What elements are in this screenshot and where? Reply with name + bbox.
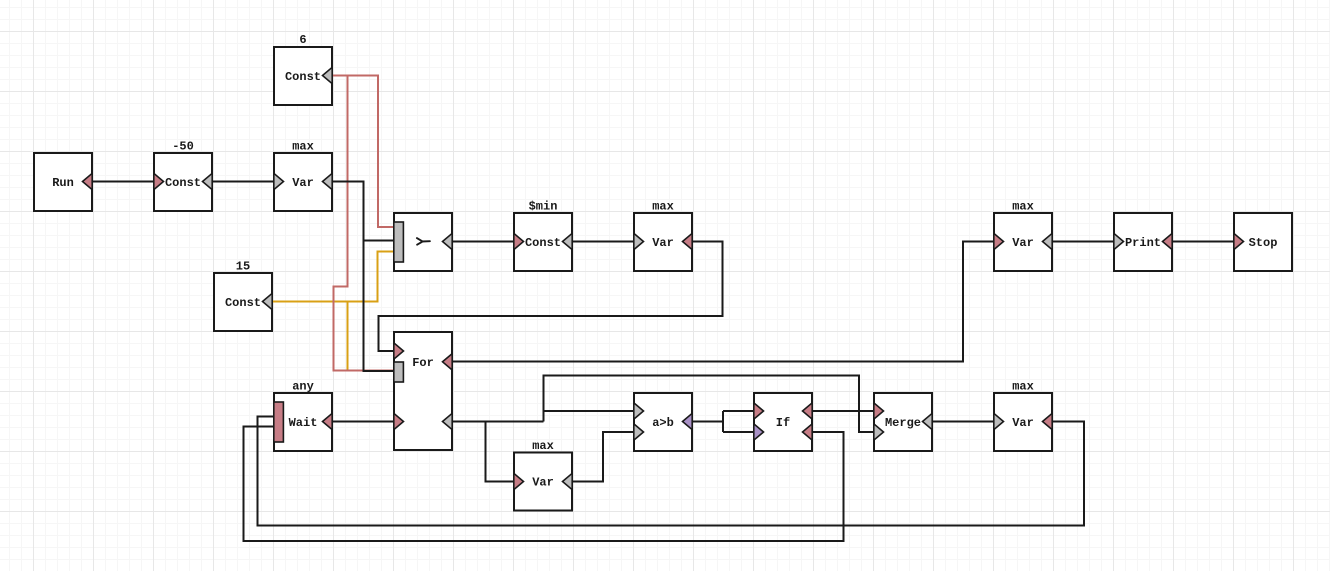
node Wait W1 (any) [274,393,332,451]
wire orange: Const 15 output to &gt; port and For port [273,252,394,371]
output connector V2 right (red) [683,233,693,249]
svg-text:Run: Run [52,176,74,190]
wire: If lower output feedback to Wait [244,427,844,542]
output connector V1 right (gray) [323,173,333,189]
node &gt; comparator G1 [394,213,452,271]
svg-text:Wait: Wait [289,416,318,430]
output connector V5 right (gray) [1043,233,1053,249]
output connector Run right (red) [83,173,93,189]
svg-text:Print: Print [1125,236,1161,250]
input port bar W1 left (red) [274,402,284,442]
output connector C4 right (gray) [263,293,273,309]
input connector F1 bottom-left (red) [394,413,404,429]
output connector V3 right (gray) [563,473,573,489]
wire: Merge to Var max [933,421,993,423]
node Var V5 (max) [994,213,1052,271]
input connector V5 left (red) [994,233,1004,249]
node Const C3 ($min) [514,213,572,271]
wire: Const $min to Var max [573,241,633,243]
input connector V2 left (gray) [634,233,644,249]
input connector I1 lower-left (purple) [754,424,764,440]
svg-text:If: If [776,416,790,430]
svg-text:-50: -50 [172,140,194,154]
input connector I1 upper-left (red) [754,403,764,419]
output connector V4 right (red) [1043,413,1053,429]
svg-text:Var: Var [1012,416,1034,430]
wire: Var max to Print [1053,241,1113,243]
svg-text:Const: Const [285,70,321,84]
wire: &gt; output to Const $min [453,241,513,243]
svg-text:Const: Const [225,296,261,310]
svg-text:Var: Var [532,476,554,490]
output connector C2 right (gray) [203,173,213,189]
input connector C3 left (red) [514,233,524,249]
node a&gt;b A1 [634,393,692,451]
node Const C1 (value 6) [274,47,332,105]
output connector I1 upper-right (red) [803,403,813,419]
output connector C3 right (gray) [563,233,573,249]
wire: Var max output to For top-left input [379,242,723,352]
output connector I1 lower-right (red) [803,424,813,440]
node Const C2 (value -50) [154,153,212,211]
wire: For top output to Var max (top right) [453,242,993,362]
svg-text:max: max [532,439,554,453]
wire: a&gt;b output split to If inputs [693,411,753,432]
svg-text:6: 6 [299,33,306,47]
svg-text:max: max [1012,200,1034,214]
output connector P1 right (red) [1163,233,1173,249]
svg-text:Merge: Merge [885,416,921,430]
input connector V3 left (red) [514,473,524,489]
output connector F1 bottom-right (gray) [443,413,453,429]
wire: Var max output to &gt; port and For port [333,182,394,372]
output connector C1 right (gray) [323,67,333,83]
svg-text:Const: Const [525,236,561,250]
input connector V1 left (gray) [274,173,284,189]
svg-text:max: max [652,200,674,214]
text "&gt;" rotated glyph in G1 [417,238,430,245]
svg-text:For: For [412,356,434,370]
wire red: Const 6 output to &gt; port and For port [333,76,394,371]
input port bar G1 left (gray) [394,222,404,262]
svg-text:max: max [1012,380,1034,394]
input connector A1 upper-left (gray) [634,403,644,419]
node Var V3 (max) [514,453,572,511]
svg-text:Stop: Stop [1249,236,1278,250]
wire: Print to Stop [1173,241,1233,243]
wire: Wait to For lower input [333,421,394,423]
node Stop S1 [1234,213,1292,271]
node For F1 [394,332,452,450]
svg-text:Const: Const [165,176,201,190]
input connector S1 left (red) [1234,233,1244,249]
wire: Const -50 to Var max [213,181,273,183]
input connector A1 lower-left (gray) [634,424,644,440]
output connector F1 top-right (red) [443,354,453,370]
svg-text:Var: Var [292,176,314,190]
output connector A1 right (purple) [683,413,693,429]
svg-text:max: max [292,140,314,154]
output connector W1 right (red) [323,413,333,429]
wire: Run to Const -50 [93,181,153,183]
input connector M1 lower-left (gray) [874,424,884,440]
svg-text:Var: Var [652,236,674,250]
wire: If upper output to Merge [813,410,873,412]
output connector M1 right (gray) [923,413,933,429]
node Var V4 (max) [994,393,1052,451]
output connector G1 right (gray) [443,233,453,249]
input connector F1 top-left (red) [394,343,404,359]
node Const C4 (value 15) [214,273,272,331]
wire: Var max output to a&gt;b lower input [573,432,633,482]
node If I1 [754,393,812,451]
input port bar F1 left (gray) [394,362,404,382]
wire: Var max output feedback to Wait [258,417,1085,526]
node Var V1 (max) [274,153,332,211]
node Run [34,153,92,211]
svg-text:15: 15 [236,260,250,274]
input connector V4 left (gray) [994,413,1004,429]
input connector C2 left (red) [154,173,164,189]
node Print P1 [1114,213,1172,271]
input connector M1 upper-left (red) [874,403,884,419]
wire: For bottom output branching to a&gt;b, Merge and Var max [453,376,873,482]
svg-text:$min: $min [529,200,558,214]
svg-text:a>b: a>b [652,416,674,430]
input connector P1 left (gray) [1114,233,1124,249]
svg-text:any: any [292,380,314,394]
svg-text:Var: Var [1012,236,1034,250]
node Merge M1 [874,393,932,451]
node Var V2 (max) [634,213,692,271]
